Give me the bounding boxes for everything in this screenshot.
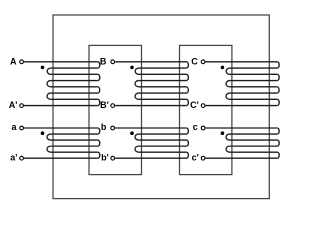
- svg-text:C: C: [191, 57, 198, 67]
- winding B-B' left-side loop arcs: [135, 68, 139, 99]
- winding A-A' turns (crossing wires): [24, 62, 98, 106]
- svg-text:b: b: [101, 122, 107, 132]
- winding A-A' left-side loop arcs: [47, 68, 51, 99]
- svg-text:b': b': [101, 152, 109, 162]
- svg-text:A: A: [10, 57, 17, 67]
- polarity dot winding B: [130, 66, 134, 70]
- winding b-b' turns (crossing wires): [115, 128, 186, 158]
- svg-text:a: a: [11, 122, 17, 132]
- winding c-c' turns (crossing wires): [206, 128, 278, 158]
- terminal A': [20, 104, 24, 108]
- winding B-B' right-side loop arcs: [186, 62, 188, 106]
- polarity dot winding c: [221, 131, 225, 135]
- winding a-a' turns (crossing wires): [24, 128, 98, 158]
- winding c-c' left-side loop arcs: [226, 134, 230, 152]
- terminal c: [201, 126, 205, 130]
- svg-text:A': A': [9, 100, 18, 110]
- terminal C': [201, 104, 205, 108]
- winding C-C' turns (crossing wires): [206, 62, 278, 106]
- svg-text:B: B: [100, 57, 107, 67]
- polarity dot winding A: [41, 66, 45, 70]
- svg-text:C': C': [190, 100, 199, 110]
- winding c-c' right-side loop arcs: [277, 128, 279, 158]
- terminal C: [201, 60, 205, 64]
- terminal b': [111, 156, 115, 160]
- terminal a: [20, 126, 24, 130]
- terminal c': [201, 156, 205, 160]
- terminal B: [111, 60, 115, 64]
- core window right: [180, 45, 232, 174]
- winding C-C' left-side loop arcs: [226, 68, 230, 99]
- winding A-A' right-side loop arcs: [98, 62, 100, 106]
- terminal b: [111, 126, 115, 130]
- terminal a': [20, 156, 24, 160]
- winding a-a' right-side loop arcs: [98, 128, 100, 158]
- core window left: [89, 45, 142, 174]
- winding b-b' right-side loop arcs: [186, 128, 188, 158]
- polarity dot winding b: [130, 131, 134, 135]
- svg-text:B': B': [100, 100, 109, 110]
- core outer boundary: [53, 15, 269, 199]
- terminal B': [111, 104, 115, 108]
- winding a-a' left-side loop arcs: [47, 134, 51, 152]
- svg-text:a': a': [10, 152, 17, 162]
- polarity dot winding a: [41, 131, 45, 135]
- three-limb transformer core with six windings: [0, 0, 282, 211]
- polarity dot winding C: [221, 66, 225, 70]
- svg-text:c': c': [192, 152, 199, 162]
- svg-text:c: c: [193, 122, 198, 132]
- winding B-B' turns (crossing wires): [115, 62, 186, 106]
- winding b-b' left-side loop arcs: [135, 134, 139, 152]
- terminal A: [20, 60, 24, 64]
- winding C-C' right-side loop arcs: [277, 62, 279, 106]
